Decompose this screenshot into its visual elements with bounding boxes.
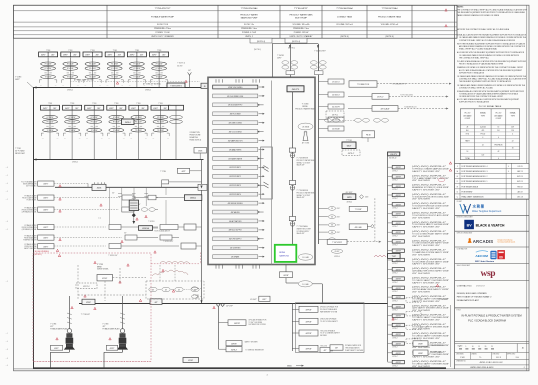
svg-text:25: 25 [491,346,493,348]
svg-text:4WP*: 4WP* [262,299,266,301]
signal row S14 [388,286,450,293]
PLC I/O bar 3 [213,103,264,107]
svg-text:TO SODIUM HYDROXIDE DOSING 4W2: TO SODIUM HYDROXIDE DOSING 4W2B* [412,206,450,208]
svg-text:OF FIBRE NETWORK THE CONTRACTO: OF FIBRE NETWORK THE CONTRACTOR SHALL VE… [459,95,504,98]
svg-text:14: 14 [467,151,469,153]
local control panel tag 4WLCP [287,86,304,92]
svg-text:(4W) 4WQ 4WP2B-4*: (4W) 4WQ 4WP2B-4* [412,240,447,242]
svg-text:A1: A1 [522,346,524,349]
svg-text:T*2*B3-DR5024A4: T*2*B3-DR5024A4 [241,7,259,10]
svg-text:CLIENT: CLIENT [457,201,462,203]
svg-text:(4W) 4WQ 4WP2B-4*: (4W) 4WQ 4WP2B-4* [412,324,447,326]
svg-text:T* 4W2B3 4W*: T* 4W2B3 4W* [108,255,118,257]
svg-text:5B02*: 5B02* [347,146,352,148]
bottom mid tag and notes [330,344,364,352]
svg-text:IN-PLANT POTABLE & PRODUCT WAT: IN-PLANT POTABLE & PRODUCT WATER SYSTEM [461,313,521,317]
svg-text:OF CABLES AND PANELS REFER DRA: OF CABLES AND PANELS REFER DRAWING FOR D… [457,84,526,87]
svg-text:(4W) 4WQ 4WP2B-4*: (4W) 4WQ 4WP2B-4* [412,278,447,280]
svg-text:T* 2*2B3 BRINE: T* 2*2B3 BRINE [297,158,308,160]
red revision asterisk near table [445,9,447,27]
left input tag box L2 [22,194,54,201]
svg-text:POWER: 0.7 kW: POWER: 0.7 kW [242,32,256,34]
svg-text:4W SURGE VESSEL: 4W SURGE VESSEL [228,203,243,205]
signal row S19 [388,333,450,340]
signal column sub header [388,253,401,258]
PLC I/O bar 13 [213,192,265,196]
svg-text:—4: —4 [6,183,9,185]
svg-text:PLC / SCADA BLOCK DIAGRAM: PLC / SCADA BLOCK DIAGRAM [468,319,506,323]
svg-text:VOLUME: 41741 m3: VOLUME: 41741 m3 [381,24,398,26]
signal row S2 [388,175,450,182]
left margin ruler marks [6,167,269,377]
instrument group row2 G11 [129,103,148,159]
svg-text:T*2B3: T*2B3 [113,50,117,52]
pump tag box T1 [97,275,113,281]
svg-text:TO SERVICE RESERVOIR: TO SERVICE RESERVOIR [245,349,264,351]
pump tag box mid [106,345,117,350]
signal row S9 [388,240,450,247]
T-connection box C [348,105,449,111]
svg-text:INLET PUMP: INLET PUMP [295,18,308,20]
svg-text:F: F [457,181,458,183]
svg-text:T*2*B3-4PD2*02*: T*2*B3-4PD2*02* [155,8,171,10]
svg-text:—6: —6 [6,365,9,367]
enclosure bottom tick marks [216,265,260,269]
svg-text:4W2B*: 4W2B* [418,353,423,355]
svg-text:FROM CHLORINE: FROM CHLORINE [24,246,36,248]
svg-text:4W*: 4W* [335,348,338,350]
svg-text:4WTB-4: 4WTB-4 [145,90,151,92]
svg-text:PB 4B: PB 4B [366,134,371,136]
wire L3 row [54,207,158,212]
svg-text:—5: —5 [6,229,9,231]
svg-text:4WD*: 4WD* [337,225,341,227]
brine sampling highlight green box [275,245,297,262]
svg-text:FLOW: 1 l/s: FLOW: 1 l/s [244,24,254,26]
dark tag 4W 5B02 [342,140,356,149]
instrument group row2 G8 [63,103,82,159]
dark tag 4WP 194 [343,192,370,204]
svg-text:4W LIGHTING: 4W LIGHTING [230,248,241,250]
svg-text:UNITS / DUTY / STANDBY: UNITS / DUTY / STANDBY [151,35,174,38]
svg-text:4W* PLC: 4W* PLC [83,286,90,288]
svg-text:4WTB-4*: 4WTB-4* [231,349,238,351]
signal row S5 [388,203,450,210]
right branch box R3 [292,329,340,337]
pump outlet piping P1 [50,352,69,368]
tag box 4WTB-4 right of row1 [167,83,185,88]
svg-text:POWER: 7.5 kW: POWER: 7.5 kW [155,32,169,34]
right cluster column 2 rows [318,207,341,242]
svg-text:T*2*B3-5WT24A4: T*2*B3-5WT24A4 [382,7,399,10]
svg-text:J: J [457,166,458,168]
svg-text:4WP2B*: 4WP2B* [305,333,311,335]
svg-text:4W PW PUMP 2: 4W PW PUMP 2 [229,176,241,178]
right branch extra box [320,348,330,353]
svg-text:(NOTE 4): (NOTE 4) [292,41,300,43]
svg-text:THE CONTRACTOR SHALL VERIFY AL: THE CONTRACTOR SHALL VERIFY ALL [459,56,489,59]
svg-text:4WSD 4 DBO 4024 E 402: 4WSD 4 DBO 4024 E 402 [479,362,503,364]
svg-text:4WP2*: 4WP2* [43,246,48,248]
svg-text:4WDB: 4WDB [132,198,136,200]
svg-text:JUN 19: JUN 19 [517,166,522,168]
wire L1 to junction box [54,184,88,188]
svg-text:UNITS: 2: UNITS: 2 [245,36,253,38]
svg-text:4P2*: 4P2* [103,326,107,328]
svg-text:(NOTE 4): (NOTE 4) [257,41,265,43]
instrument group row2 G10 [107,103,126,159]
red zone deltas [56,254,215,339]
signal column dashed sub boxes [406,298,421,344]
svg-text:4WLCP*4: 4WLCP*4 [292,89,299,91]
svg-text:(NOTE 4): (NOTE 4) [254,49,261,51]
svg-text:(4W) 4WQ 4WP2B-4*: (4W) 4WQ 4WP2B-4* [412,361,447,363]
svg-text:4: 4 [508,166,509,168]
svg-text:—0: —0 [6,341,9,343]
svg-text:VOLUME: 5570 m3: VOLUME: 5570 m3 [336,24,352,26]
svg-text:T*2*B3-U4P22*: T*2*B3-U4P22* [294,8,308,10]
svg-text:PRODUCT WATER TANK: PRODUCT WATER TANK [289,14,313,17]
svg-text:PLC I/O: PLC I/O [496,113,502,115]
wire L4 row [54,224,202,230]
svg-text:(4W) 4WQ 4WP2B-4*: (4W) 4WQ 4WP2B-4* [412,175,447,177]
svg-text:PRODUCT WATER: PRODUCT WATER [240,14,258,17]
dashed tie line above bus1 [70,78,200,85]
svg-text:T*2B3: T*2B3 [46,50,50,52]
svg-text:4W* SHOWER: 4W* SHOWER [412,199,430,201]
product tank instrument cluster [310,51,326,75]
row2 bus left labels [15,148,25,155]
right end drop wire [438,299,451,367]
svg-text:4WTB-4*: 4WTB-4* [348,153,355,155]
instrument group row2 G9 [85,103,104,159]
svg-text:CONTRACTOR SHALL VERIFY ALL PL: CONTRACTOR SHALL VERIFY ALL PLC AND SCAD… [459,39,516,42]
PLC I/O bar 7 [213,139,265,143]
svg-text:4WTB-4: 4WTB-4 [67,89,73,91]
svg-text:COUNT: COUNT [496,118,502,120]
svg-text:4PDB*: 4PDB* [188,360,193,362]
svg-text:4WTB: 4WTB [347,197,351,199]
svg-text:(4W) 4WQ 4WP2B-4*: (4W) 4WQ 4WP2B-4* [412,333,447,335]
PLC I/O bar 2 [213,94,265,98]
svg-text:TO INSTALLATION OF CABLES AND: TO INSTALLATION OF CABLES AND PANELS REF… [459,93,519,96]
tank internal divider wire [271,81,273,265]
PLC I/O bar 20 [213,255,265,259]
svg-text:T*2*B3-5B0224A4: T*2*B3-5B0224A4 [336,7,353,10]
svg-text:4W*: 4W* [188,70,191,72]
top equipment spec table [14,5,458,38]
signal row S15 [388,295,450,302]
scada link box [139,226,171,233]
sampling flask symbol [302,132,309,145]
svg-text:(4W) 4WQ 4WP2B-4*: (4W) 4WQ 4WP2B-4* [412,203,447,205]
svg-text:水務署: 水務署 [472,204,485,209]
product water tank enclosure [208,77,315,264]
right branch box R4 [292,345,334,352]
svg-text:(NOTE 4): (NOTE 4) [288,48,295,50]
svg-text:4W LIME DOSING: 4W LIME DOSING [229,123,243,125]
bottom right tags [413,341,444,356]
svg-text:CONTRACTOR SHALL VERIFY ALL PL: CONTRACTOR SHALL VERIFY ALL PLC AND SCAD… [459,78,527,81]
svg-text:T* 2*2B3 4W*: T* 2*2B3 4W* [81,314,91,316]
right branch box R2 [292,318,338,325]
svg-text:20: 20 [485,346,487,348]
dashed feedback path [347,198,381,243]
project description block [455,284,529,308]
svg-text:4: 4 [498,158,499,160]
svg-text:FIRST STAGE OF TSEUNG KWAN O: FIRST STAGE OF TSEUNG KWAN O [457,295,492,298]
svg-text:4WTB-4: 4WTB-4 [346,201,352,203]
pump outlet piping P2 [104,352,123,368]
instrument bubbles row A [325,118,389,122]
svg-text:T* 2*2B3: T* 2*2B3 [50,324,56,326]
svg-text:22: 22 [482,144,484,146]
svg-text:(4W) 4WQ 4WP2B-4*: (4W) 4WQ 4WP2B-4* [412,231,447,233]
svg-text:4WD*: 4WD* [337,208,341,210]
PLC I/O bar 15 [213,210,264,214]
T-connection box D [349,206,367,211]
svg-text:4WP2B*: 4WP2B* [231,343,237,345]
marshalling dark cabinet [129,198,138,211]
svg-text:4WP2*: 4WP2* [15,79,20,81]
wide tag 4WTB box [327,239,347,244]
svg-text:DESIGNED: DESIGNED [456,354,464,356]
svg-text:FOR TENDER ADDENDUM NO. 2: FOR TENDER ADDENDUM NO. 2 [462,175,488,178]
pump tag box left [50,345,62,350]
svg-text:—8: —8 [6,349,9,351]
vertical pump P2 [117,329,128,353]
tank outlet valve V2 [289,181,315,200]
svg-text:DESALINATION PLANT: DESALINATION PLANT [457,299,480,302]
svg-text:PROFIBUS: PROFIBUS [494,144,502,146]
svg-text:PRIOR TO INSTALLATION OF CABLE: PRIOR TO INSTALLATION OF CABLES AND PANE… [459,63,504,66]
svg-text:T* 4W2B3 4WP2*: T* 4W2B3 4WP2* [314,51,326,53]
dashed tag below 5B02 [342,150,360,156]
svg-text:PRESSURE: 47 bar: PRESSURE: 47 bar [154,27,171,30]
client block separator [455,198,529,200]
svg-text:VOLUME: 185 m3/h: VOLUME: 185 m3/h [293,24,310,26]
approval row [455,352,529,359]
svg-text:J: J [524,367,525,369]
left input tag box L1 [21,180,54,187]
svg-text:T* 2*2B4: T* 2*2B4 [160,171,166,173]
svg-text:—8: —8 [6,358,9,360]
PLC I/O bar 11 [213,174,265,178]
svg-text:T* 2*2B3: T* 2*2B3 [15,77,21,79]
svg-text:120: 120 [511,130,514,132]
junction box JB1 [92,182,106,190]
svg-text:CHECKED: CHECKED [492,354,499,356]
svg-text:30 000 VESSEL: 30 000 VESSEL [35,251,50,253]
svg-text:THE RELEVANT EQUIPMENT SUPPLIE: THE RELEVANT EQUIPMENT SUPPLIER PRIOR TO… [459,80,512,83]
svg-text:SUPPLIER PRIOR TO INSTALLATION: SUPPLIER PRIOR TO INSTALLATION [459,71,485,74]
mid cluster bottom bubbles [192,287,202,298]
red revision dashed zone [33,253,151,362]
main left riser wire [33,88,35,369]
wire L2 row [54,195,202,201]
svg-text:FROM FUTURE: FROM FUTURE [190,135,201,137]
svg-text:4WTB-4: 4WTB-4 [72,162,78,164]
svg-text:4WSD-DBO-DRG-E-4024: 4WSD-DBO-DRG-E-4024 [470,367,494,369]
svg-text:(NOTE 4): (NOTE 4) [385,36,393,38]
bottom distribution bus wire [79,303,388,305]
junction tag box at PLC inlet [201,83,208,88]
svg-text:T*2B3: T*2B3 [157,50,161,52]
svg-text:4WP2B*: 4WP2B* [305,322,311,324]
svg-text:4W*: 4W* [124,232,127,234]
bottom main bus wire [33,367,446,369]
svg-text:4WLCP*4: 4WLCP*4 [390,154,397,156]
svg-text:SAMPLING: SAMPLING [279,254,289,257]
svg-text:PRODUCT WATER TANK: PRODUCT WATER TANK [295,108,315,111]
svg-text:(4W) 4WQ 4WP2B-4*: (4W) 4WQ 4WP2B-4* [412,315,447,317]
signal row red oval [438,178,445,182]
red zone extension dashes [151,253,201,264]
mid riser wire [201,160,203,304]
svg-text:4WP2B*: 4WP2B* [305,310,311,312]
svg-text:TITLE: TITLE [456,310,460,312]
PLC I/O bar 9 [213,157,264,161]
contact tank drop wire [273,44,291,78]
svg-text:T*2B3: T*2B3 [136,103,140,105]
svg-text:4WDB-4: 4WDB-4 [125,122,131,124]
left input tag box L3 [22,206,54,213]
right riser wire top [318,44,320,244]
instrument group row1 G1 [39,50,58,88]
vertical pump P1 [64,329,75,353]
signal row S20 [388,342,450,349]
svg-text:—5: —5 [6,175,9,177]
svg-text:4W 4W*: 4W 4W* [334,251,340,253]
red zone title [35,251,50,256]
svg-text:4W PLC*: 4W PLC* [377,97,384,99]
table hanging note cell 1 [250,38,272,43]
svg-text:T*2B3: T*2B3 [70,103,74,105]
instrument group row2 G12 [151,103,170,159]
PLC I/O bar 8 [213,148,265,152]
distribution bus end tag [82,299,95,304]
drop tick marks [118,194,148,197]
T-connection box A [349,81,452,87]
PLC I/O bar 19 [213,246,265,250]
svg-text:THE CONTRACTOR SHALL VERIFY AL: THE CONTRACTOR SHALL VERIFY ALL PLC AND … [457,9,528,12]
svg-text:JB: JB [204,86,206,88]
svg-text:CONNECTION: CONNECTION [190,132,200,134]
svg-text:PLC AND SCADA SIGNAL ALLOCATIO: PLC AND SCADA SIGNAL ALLOCATIONS WITH TH… [457,60,527,63]
svg-text:PT100: PT100 [480,133,485,135]
svg-text:TYPE: TYPE [481,115,485,117]
svg-text:4WTB-4: 4WTB-4 [334,256,339,258]
svg-text:4WP2*: 4WP2* [43,210,48,212]
instrument group row1 G4 [105,50,124,88]
svg-text:NETWORK THE CONTRACTOR SHALL V: NETWORK THE CONTRACTOR SHALL VERIFY ALL … [457,28,510,31]
black and veatch logo [455,216,529,232]
water supplies department logo [455,201,529,215]
drawing title block [455,310,529,342]
svg-text:4PDB*: 4PDB* [86,302,91,304]
svg-text:—6: —6 [6,221,9,223]
surge vessel label [97,264,109,271]
svg-text:4WP2*: 4WP2* [110,348,115,350]
svg-text:SHOWER: SHOWER [320,335,328,337]
svg-text:(4W) 4WQ 4WP2B-4*: (4W) 4WQ 4WP2B-4* [412,259,447,261]
svg-text:4WP2*: 4WP2* [43,227,48,229]
signal column header tag [388,152,400,160]
svg-text:ALL PLC AND SCADA SIGNAL ALLOC: ALL PLC AND SCADA SIGNAL ALLOCATIONS WIT… [459,69,523,72]
svg-text:(4W) 4WQ 4WP2B-4*: (4W) 4WQ 4WP2B-4* [412,268,447,270]
svg-text:POTABLE WATER PUMP: POTABLE WATER PUMP [151,16,175,19]
svg-text:(4W) 4WQ 4WP2B-4*: (4W) 4WQ 4WP2B-4* [412,305,447,307]
svg-text:(4W) 4WQ 4WP2B-4*: (4W) 4WQ 4WP2B-4* [412,166,447,168]
svg-text:4: 4 [498,137,499,139]
PLC I/O bar 12 [213,183,264,187]
svg-text:TO RO BUILDING: TO RO BUILDING [400,94,414,96]
instrument group row1 G6 [150,50,169,88]
svg-text:4W UPS SUPPLY: 4W UPS SUPPLY [229,239,243,241]
row1 feeder bus wire [33,86,208,91]
svg-text:—6: —6 [6,167,9,169]
red dotted revision line [33,361,151,363]
pump riser wires [67,296,125,328]
drawing number rows [455,359,529,369]
right cluster tag FIT [318,117,344,122]
svg-text:T*2B3: T*2B3 [48,103,52,105]
svg-text:4W 2B3 LT: 4W 2B3 LT [332,82,339,84]
svg-text:DEC 18: DEC 18 [517,197,523,199]
svg-text:T* 4W2B3: T* 4W2B3 [148,221,155,223]
svg-text:4W FLUORIDE: 4W FLUORIDE [230,114,241,116]
svg-text:16: 16 [512,148,514,150]
svg-text:4WP*: 4WP* [181,171,185,173]
svg-text:T*2B3: T*2B3 [158,103,162,105]
svg-text:CONTACT TANK: CONTACT TANK [337,16,353,19]
level switch box [318,131,375,142]
svg-text:M.C.F: M.C.F [496,357,501,359]
mid riser tag [160,168,202,173]
svg-text:FOR TENDER ADDENDUM NO. 1: FOR TENDER ADDENDUM NO. 1 [462,180,488,183]
svg-text:—2: —2 [6,199,9,201]
svg-text:CONTRACT NO.: CONTRACT NO. [457,284,473,287]
svg-text:FOR TENDER ISSUE: FOR TENDER ISSUE [462,186,479,188]
svg-text:FLOW: 5*L/S: FLOW: 5*L/S [157,24,169,26]
tank name label [295,104,315,111]
revision table [455,163,529,199]
PLC I/O bar 17 [213,228,265,232]
svg-text:BRINE: BRINE [97,266,102,268]
note link header wire [254,44,319,51]
sub bus end box [198,184,207,190]
svg-text:PLC I/O: PLC I/O [465,113,471,115]
svg-text:BLACK & VEATCH: BLACK & VEATCH [476,224,505,228]
svg-text:4W* SHOWER: 4W* SHOWER [412,347,430,349]
svg-text:4W SODIUM HYPO: 4W SODIUM HYPO [228,105,243,107]
wire L6 row [54,243,202,249]
left tag red deltas [56,185,61,252]
tank outlet valve V1 [289,148,315,167]
antenna riser to PLC [177,63,191,88]
arcadis logo [455,232,529,247]
svg-text:FROM DISTRIBUTION: FROM DISTRIBUTION [22,209,37,211]
distribution bus mid tag [150,299,162,305]
signal row S21 [388,351,450,358]
signal row S12 [388,268,450,275]
svg-text:POWER: 132 kW: POWER: 132 kW [294,32,309,34]
cluster red deltas [100,204,156,253]
signal row S10 [388,249,450,256]
svg-text:(4W) 4WQ 4WP2B-4*: (4W) 4WQ 4WP2B-4* [412,185,447,187]
svg-text:PANELS REFER DRAWING FOR DETAI: PANELS REFER DRAWING FOR DETAILS OF FIBR… [457,14,500,17]
instrument group row2 G7 [41,103,60,159]
